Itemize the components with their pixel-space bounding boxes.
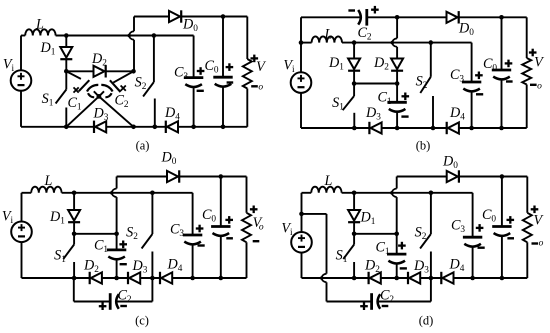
capacitor C3 (d) <box>472 193 474 237</box>
C2 loop bottom wire right (c) <box>117 301 153 303</box>
minus C0 (b) <box>506 80 513 82</box>
junction D1 top (d) <box>352 191 357 196</box>
junction C1 top (d) <box>394 232 399 237</box>
junction D1 bottom (c) <box>72 232 77 237</box>
capacitor C2 (d) <box>372 293 381 310</box>
junction C0 bottom (d) <box>500 276 505 281</box>
voltage source Vi (c) <box>11 222 32 243</box>
load resistor Vo (d) <box>526 177 528 213</box>
node B junction (a) <box>131 69 136 74</box>
minus C3 (d) <box>478 246 485 248</box>
C2 loop left vertical (c) <box>73 278 75 302</box>
junction D1 top (c) <box>72 191 77 196</box>
wire D1-C1 horizontal (b) <box>354 83 397 85</box>
junction S1 bottom (c) <box>72 276 77 281</box>
diode D4 (c) <box>160 272 172 284</box>
capacitor C0 (d) <box>501 177 503 227</box>
load resistor Vo (c) <box>246 177 248 213</box>
wire crossing to ground-left (a) <box>66 96 99 126</box>
junction S1 bottom (a) <box>64 125 69 130</box>
plus Vo (a) <box>251 55 259 63</box>
junction C3 bottom (a) <box>191 125 196 130</box>
capacitor C1 (d) <box>396 234 398 254</box>
junction C1 bottom (d) <box>394 276 399 281</box>
plus C2 (b) <box>371 6 379 14</box>
minus Vo (b) <box>530 84 537 86</box>
wire L to C3 corner (b) <box>342 42 472 44</box>
minus C2 (c) <box>120 305 127 307</box>
wire Vi bottom (b) <box>300 93 302 128</box>
plus C1 (d) <box>398 242 406 250</box>
wire Vi top to rail (a) <box>20 36 22 71</box>
junction D1 bottom (d) <box>352 232 357 237</box>
junction C0 top (b) <box>499 15 504 20</box>
diode D4 (d) <box>441 272 453 284</box>
diode D2 (d) <box>369 272 381 284</box>
junction C3 bottom (d) <box>470 276 475 281</box>
diode D2 (b) <box>391 59 403 71</box>
diode D3 (a) <box>94 121 106 133</box>
junction C0 top (a) <box>221 14 226 19</box>
svg-text:o: o <box>537 82 542 92</box>
rail2 wire (c) <box>62 192 193 194</box>
input tap junction (d) <box>299 212 304 217</box>
capacitor C3 (c) <box>192 193 194 235</box>
C2 loop bottom wire left (d) <box>327 301 372 303</box>
junction C0 bottom (b) <box>499 126 504 131</box>
junction diag right bottom (a) <box>131 125 136 130</box>
wire crossing to ground-right (a) <box>99 96 134 126</box>
plus C1 (c) <box>119 241 127 249</box>
rail2 wire (d) <box>342 192 473 194</box>
wire Vi bottom (d) <box>301 253 303 278</box>
node A junction (a) <box>64 69 69 74</box>
wire stub to crossing right (a) <box>99 91 104 96</box>
svg-text:(b): (b) <box>416 139 431 153</box>
inductor L (a) <box>25 29 55 35</box>
capacitor C1 plates (a) <box>79 80 99 97</box>
diode D1 (a) <box>65 36 67 48</box>
diode D0 (a) <box>169 10 181 22</box>
top rail (d) <box>397 176 447 178</box>
junction S1 bottom (b) <box>352 126 357 131</box>
top rail (c) <box>117 176 167 178</box>
junction D1 bottom (b) <box>352 81 357 86</box>
minus C3 (b) <box>476 93 483 95</box>
load resistor Vo (b) <box>526 17 528 58</box>
junction C3 bottom (b) <box>469 126 474 131</box>
minus C0 (a) <box>227 81 234 83</box>
top rail left segment to C2 (b) <box>301 16 362 18</box>
switch S2 (d) <box>430 193 432 234</box>
plus C0 (b) <box>505 60 513 68</box>
junction D1 top (a) <box>64 33 69 38</box>
switch S1 (b) <box>353 84 355 97</box>
wire Vi bottom (c) <box>21 242 23 278</box>
minus Vo (d) <box>532 242 539 244</box>
voltage source Vi (d) <box>291 232 312 253</box>
svg-text:o: o <box>258 83 263 93</box>
diode D3 (b) <box>369 122 381 134</box>
rail2 lead (b) <box>301 42 312 44</box>
diode D1 (b) <box>353 43 355 59</box>
wire D0-anode vertical with hop over rail (a) <box>133 17 135 32</box>
capacitor C3 (b) <box>471 43 473 82</box>
wire Vi top to corner (b) <box>300 17 302 72</box>
plus C3 (a) <box>197 67 205 75</box>
svg-text:(c): (c) <box>135 314 149 328</box>
crossing junction dot (a) <box>97 94 102 99</box>
minus C2 (b) <box>348 9 355 11</box>
minus C3 (a) <box>197 90 204 92</box>
polarity x-mark C1 (a) <box>74 87 79 92</box>
wire D1 junction to C1 top (c) <box>74 233 117 235</box>
minus C2 (d) <box>382 305 389 307</box>
vertical top-rail to C1 with hop (c) <box>116 177 118 189</box>
plus C0 (c) <box>225 216 233 224</box>
capacitor C0 (b) <box>501 17 503 70</box>
capacitor C1 (c) <box>116 234 118 250</box>
wire Vi bottom to ground rail (a) <box>20 91 22 127</box>
junction S2 top (b) <box>429 40 434 45</box>
wire L to C3 corner (a) <box>56 35 194 37</box>
vertical D2 branch with hop (b) <box>396 17 398 38</box>
diode D1 (c) <box>73 193 75 210</box>
wire Vi top (d) <box>301 193 303 232</box>
C2 loop bottom wire left (c) <box>74 301 110 303</box>
top rail C2 to D0 (b) <box>367 16 447 18</box>
plus C2 (d) <box>360 302 368 310</box>
junction C1 top (c) <box>114 232 119 237</box>
svg-text:L: L <box>324 27 333 43</box>
switch S1 (a) <box>65 71 67 89</box>
diode D4 (b) <box>447 122 459 134</box>
minus C3 (c) <box>198 244 205 246</box>
junction C0 top (d) <box>500 174 505 179</box>
junction C0 bottom (a) <box>221 125 226 130</box>
switch S1 (d) <box>353 234 355 245</box>
top rail to D0 (a) <box>134 16 169 18</box>
wire diag node B to C2 plate (a) <box>113 71 133 82</box>
junction S2 bottom (d) <box>429 276 434 281</box>
junction D1 top (b) <box>352 40 357 45</box>
junction S2 bottom (c) <box>150 276 155 281</box>
plus C0 (a) <box>226 63 234 71</box>
ground rail (d) <box>302 277 528 279</box>
wire Vi top (c) <box>21 193 23 222</box>
polarity x-mark C2 (a) <box>121 86 126 91</box>
capacitor C0 (a) <box>222 17 224 78</box>
capacitor C2 plates (a) <box>101 80 120 97</box>
inductor L (c) <box>22 192 32 194</box>
plus C0 (d) <box>507 216 515 224</box>
diode D2 (a) <box>66 70 93 72</box>
junction left wire / rail2 (b) <box>299 40 304 45</box>
svg-text:L: L <box>324 173 333 189</box>
junction S2 bottom (a) <box>153 125 158 130</box>
capacitor C1 (b) <box>396 84 398 103</box>
switch S1 (c) <box>73 234 75 245</box>
junction C0 top (c) <box>219 174 224 179</box>
plus Vo (d) <box>531 206 539 214</box>
junction top rail / D2 branch (b) <box>395 15 400 20</box>
C2 loop bottom wire right (d) <box>378 301 431 303</box>
junction S2 bottom (b) <box>431 126 436 131</box>
wire stub to crossing left (a) <box>94 91 99 96</box>
svg-text:(d): (d) <box>419 314 434 328</box>
junction C1 top (b) <box>395 81 400 86</box>
input tap wire (d) <box>302 213 327 215</box>
wire D1 junction to C1 top (d) <box>354 233 397 235</box>
ground rail (a) <box>21 126 247 128</box>
svg-text:(a): (a) <box>136 139 150 153</box>
diode D4 (a) <box>166 121 178 133</box>
svg-text:o: o <box>539 239 544 249</box>
capacitor C2 (b) <box>358 9 367 26</box>
junction C3 bottom (c) <box>190 276 195 281</box>
minus C1 (d) <box>400 267 407 269</box>
capacitor C0 (c) <box>220 177 222 227</box>
svg-text:o: o <box>259 223 264 233</box>
junction C1 bottom (b) <box>395 126 400 131</box>
minus C1 (c) <box>120 263 127 265</box>
voltage source Vi (b) <box>291 72 312 93</box>
junction C0 bottom (c) <box>219 276 224 281</box>
diode D0 (d) <box>447 170 459 182</box>
minus Vo (c) <box>253 240 260 242</box>
svg-text:L: L <box>44 173 53 189</box>
switch S2 (c) <box>151 193 153 234</box>
load resistor Vo (a) <box>246 17 248 60</box>
switch S2 (b) <box>430 43 432 77</box>
minus C0 (c) <box>226 237 233 239</box>
vertical top-rail to C1 with hop (d) <box>396 177 398 189</box>
ground rail (b) <box>301 127 527 129</box>
plus Vo (c) <box>250 206 258 214</box>
junction S2 top (d) <box>429 191 434 196</box>
tap vertical with hop over ground rail (d) <box>326 214 328 274</box>
plus C2 (c) <box>99 302 107 310</box>
wire diag node A to C1 plate (a) <box>66 71 81 79</box>
diode D2 (c) <box>90 272 102 284</box>
junction S2 top (c) <box>150 191 155 196</box>
plus C3 (c) <box>196 225 204 233</box>
diode D1 (d) <box>353 193 355 210</box>
plus C3 (d) <box>476 224 484 232</box>
plus C3 (b) <box>475 72 483 80</box>
inductor L (d) <box>302 192 312 194</box>
minus Vo (a) <box>251 85 258 87</box>
minus C0 (d) <box>507 237 514 239</box>
switch S2 (a) <box>153 36 155 83</box>
junction C1 bottom (c) <box>114 276 119 281</box>
diode D3 (d) <box>408 272 420 284</box>
C2 loop right vertical (d) <box>430 278 432 302</box>
junction S1 bottom (d) <box>352 276 357 281</box>
inductor L (b) <box>312 36 342 42</box>
plus Vo (b) <box>529 49 537 57</box>
capacitor C2 (c) <box>110 293 119 310</box>
svg-text:L: L <box>35 17 44 33</box>
voltage source Vi (a) <box>11 70 32 91</box>
capacitor C3 (a) <box>193 36 195 78</box>
minus C1 (b) <box>401 115 408 117</box>
diode D3 (c) <box>128 272 140 284</box>
plus C1 (b) <box>402 93 410 101</box>
ground rail (c) <box>22 277 247 279</box>
diode D0 (b) <box>447 11 459 23</box>
junction S2 top (a) <box>152 33 157 38</box>
C2 loop right vertical (c) <box>151 278 153 302</box>
diode D0 (c) <box>167 170 179 182</box>
